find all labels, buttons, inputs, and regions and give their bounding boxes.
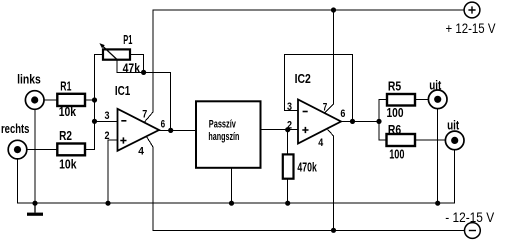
- wire R6 to lower output: [415, 139, 445, 141]
- wire IC1 pin2 input: [108, 139, 118, 141]
- junction node R1/summing: [92, 97, 97, 102]
- wire upper output ground drop: [437, 109, 439, 204]
- wire top +V rail: [153, 9, 464, 11]
- wire 47k feedback line to IC1 output: [117, 72, 171, 130]
- wire rechts input to R2: [27, 148, 58, 150]
- wire lower output ground drop: [454, 150, 456, 203]
- terminal +12-15V: [446, 2, 496, 36]
- junction node +V rail IC2 pin7: [331, 7, 336, 12]
- resistor 470k: [283, 154, 318, 178]
- wire R1 to summing node: [85, 99, 95, 101]
- op-amp IC1: [105, 83, 166, 158]
- svg-text:470k: 470k: [297, 160, 317, 175]
- svg-text:7: 7: [142, 109, 147, 121]
- svg-text:6: 6: [161, 119, 166, 131]
- wire links ground drop: [34, 109, 36, 203]
- wire IC2 pin7 to +V rail: [325, 10, 334, 113]
- input connector rechts: [1, 121, 29, 159]
- ground: [27, 203, 43, 216]
- wire 470k bottom to ground rail: [287, 179, 289, 204]
- junction node ground IC1 pin2: [105, 201, 110, 206]
- junction node P1/47k: [141, 70, 146, 75]
- junction node ground tone box: [229, 201, 234, 206]
- svg-text:R2: R2: [59, 128, 72, 143]
- wire IC1 pin3 input: [95, 120, 118, 122]
- wire R2 to summing node: [85, 148, 95, 150]
- svg-text:+ 12-15 V: + 12-15 V: [446, 21, 496, 36]
- svg-text:47k: 47k: [123, 60, 141, 75]
- wire tone box output to IC2 pin2: [261, 129, 299, 131]
- junction node output split: [376, 119, 381, 124]
- resistor R2: [57, 144, 85, 156]
- svg-text:10k: 10k: [59, 156, 77, 171]
- svg-text:R6: R6: [388, 122, 401, 137]
- junction node pin3: [92, 119, 97, 124]
- svg-text:7: 7: [323, 101, 328, 113]
- junction node ground links: [32, 201, 37, 206]
- junction node IC2 output: [350, 119, 355, 124]
- svg-text:R5: R5: [388, 78, 401, 93]
- wire split to R6: [379, 139, 387, 141]
- svg-text:P1: P1: [123, 32, 132, 47]
- passive tone control box: [196, 101, 261, 168]
- wire IC1 pin2 ground drop: [107, 140, 109, 203]
- wire rechts ground drop: [17, 159, 19, 203]
- svg-text:R1: R1: [60, 79, 71, 94]
- svg-text:10k: 10k: [59, 104, 77, 119]
- wire P1 right terminal down to 47k line: [130, 55, 144, 73]
- svg-text:100: 100: [389, 147, 404, 162]
- resistor R5: [387, 94, 415, 106]
- op-amp IC2: [287, 71, 345, 149]
- wire IC2 output to split node: [341, 120, 379, 122]
- svg-text:uit: uit: [429, 77, 442, 92]
- svg-text:3: 3: [287, 101, 292, 113]
- svg-text:Passzív: Passzív: [209, 118, 237, 130]
- svg-text:links: links: [17, 71, 41, 86]
- svg-text:- 12-15 V: - 12-15 V: [445, 210, 494, 225]
- wire R5 to upper output: [415, 99, 428, 101]
- junction node IC1 output: [168, 128, 173, 133]
- svg-text:uit: uit: [447, 118, 460, 133]
- wire IC2 pin4 to -V rail: [327, 129, 334, 231]
- svg-text:3: 3: [105, 110, 110, 122]
- wire tone box bottom to ground rail: [231, 168, 233, 203]
- junction node -V rail IC2 pin4: [331, 228, 336, 233]
- svg-text:2: 2: [105, 130, 110, 142]
- svg-text:4: 4: [138, 146, 145, 158]
- wire P1 left terminal: [95, 54, 104, 56]
- potentiometer P1: [99, 32, 140, 75]
- wire 470k top: [287, 130, 289, 155]
- svg-text:IC1: IC1: [115, 83, 130, 98]
- output connector uit upper: [428, 77, 447, 108]
- svg-text:6: 6: [340, 108, 345, 120]
- svg-text:100: 100: [387, 105, 404, 120]
- wire IC2 pin3 input: [285, 110, 299, 112]
- svg-text:rechts: rechts: [1, 121, 29, 136]
- junction node IC2 pin2: [285, 127, 290, 132]
- input connector links: [17, 71, 44, 109]
- resistor R6: [387, 134, 416, 146]
- resistor R1: [57, 94, 85, 106]
- wire split to R5: [379, 99, 387, 101]
- wire IC1 pin7 to +V rail: [145, 10, 154, 122]
- svg-text:hangszín: hangszín: [208, 131, 239, 143]
- wire IC1 output to tone box: [159, 129, 196, 131]
- wire output split vertical: [378, 100, 380, 140]
- wire links input to R1: [44, 99, 57, 101]
- wire summing node vertical: [94, 55, 96, 150]
- wire bottom -V rail: [153, 229, 465, 231]
- wire P1 wiper drop: [116, 60, 118, 72]
- svg-text:4: 4: [318, 137, 324, 149]
- wire ground rail: [18, 202, 455, 204]
- svg-text:IC2: IC2: [295, 71, 311, 86]
- wire IC2 feedback loop: [285, 55, 353, 122]
- junction node ground 470k: [285, 201, 290, 206]
- terminal -12-15V: [445, 210, 494, 238]
- wire IC1 pin4 to -V rail: [147, 137, 154, 231]
- junction node ground uit upper: [435, 201, 440, 206]
- output connector uit lower: [445, 118, 464, 150]
